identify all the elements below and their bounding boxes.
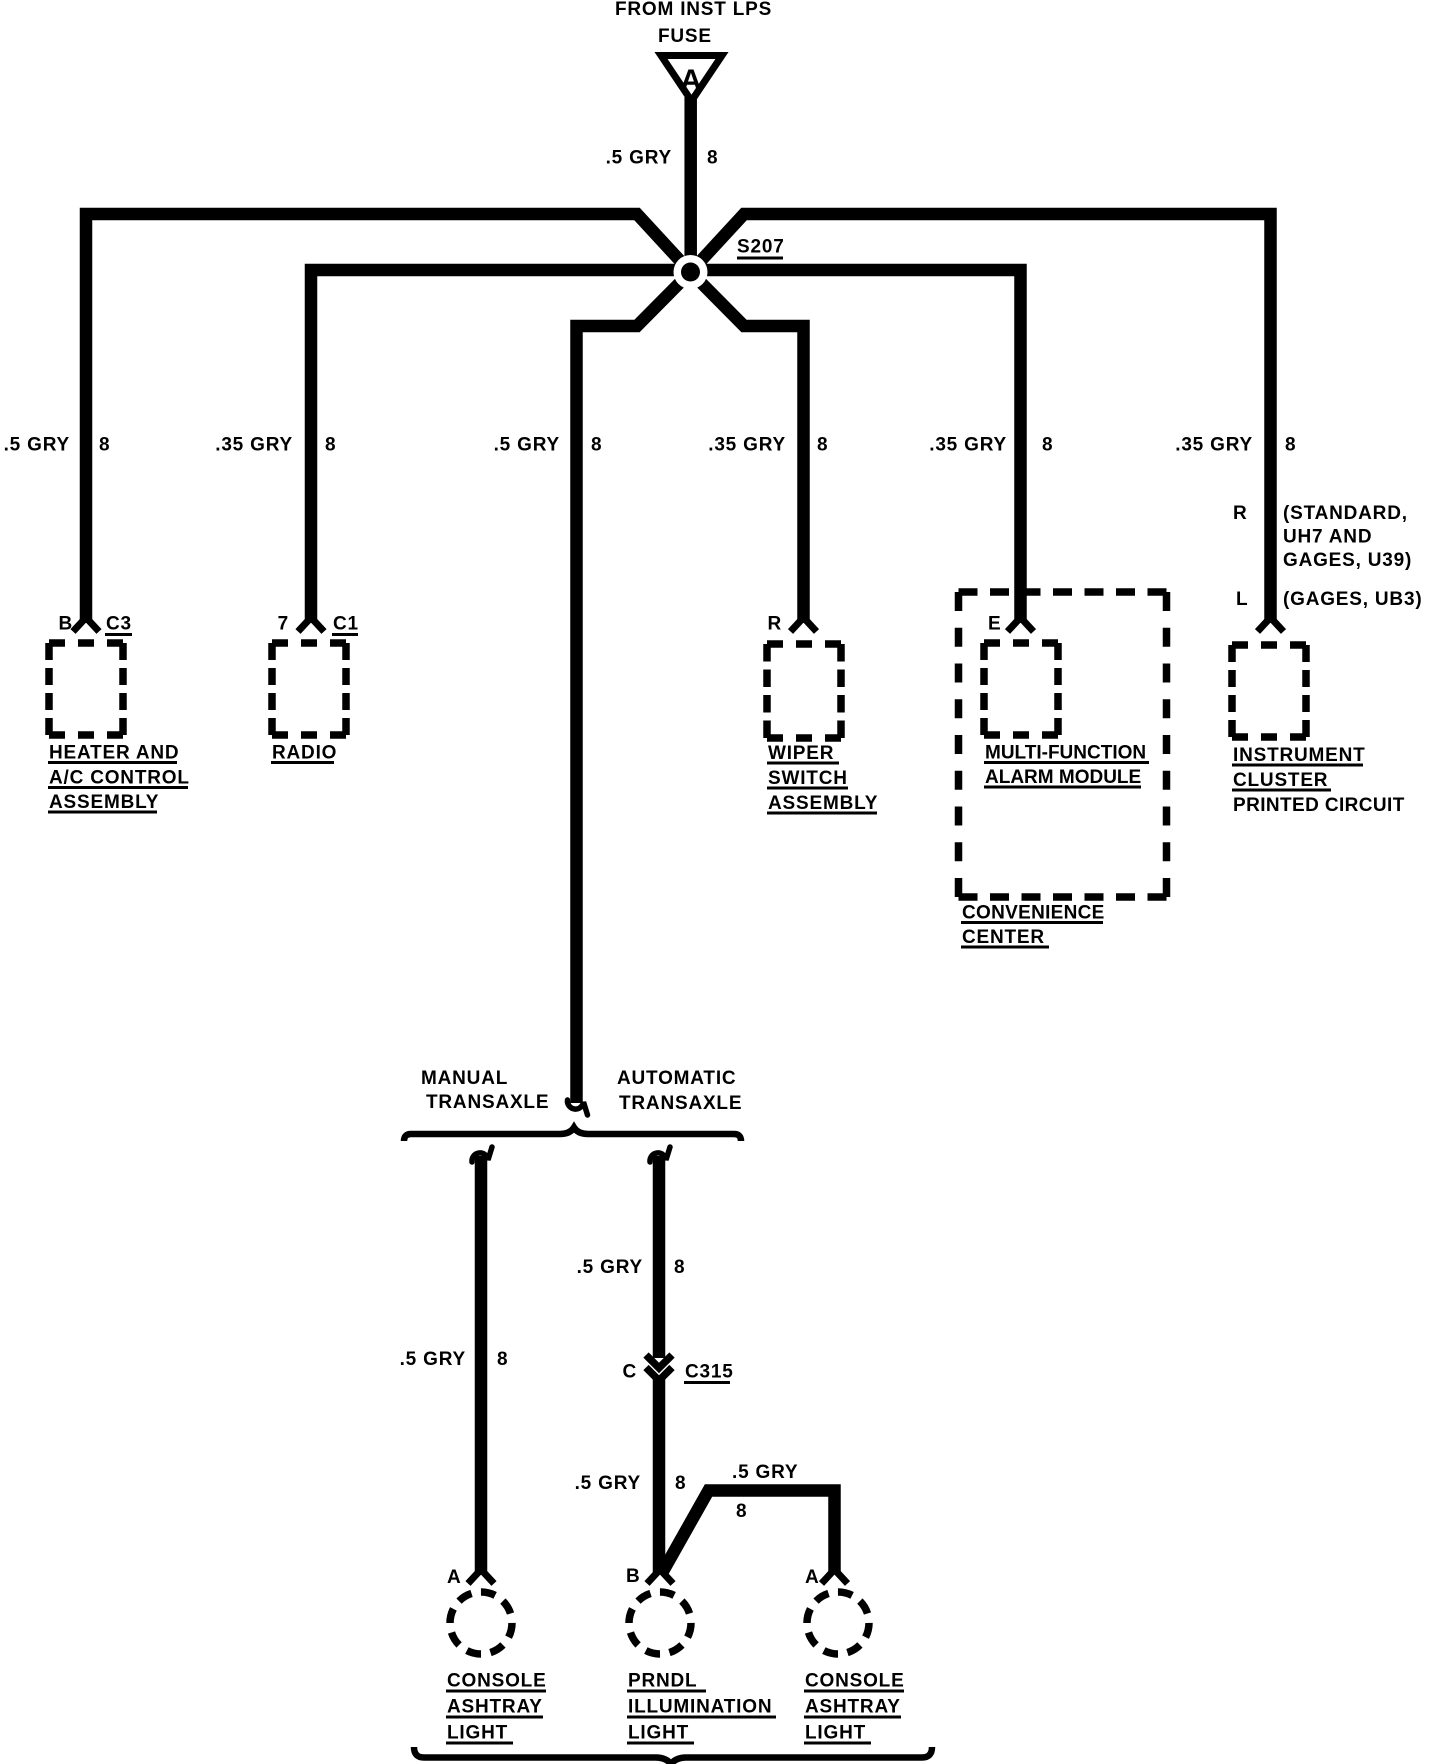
svg-text:.35 GRY: .35 GRY	[215, 435, 293, 456]
svg-text:FROM INST LPS: FROM INST LPS	[615, 0, 772, 20]
svg-text:C1: C1	[333, 614, 359, 635]
svg-text:.35 GRY: .35 GRY	[708, 435, 786, 456]
svg-text:ASHTRAY: ASHTRAY	[447, 1697, 543, 1718]
svg-text:R: R	[767, 614, 782, 635]
svg-text:A: A	[447, 1567, 462, 1588]
svg-text:8: 8	[674, 1257, 685, 1278]
svg-text:C: C	[622, 1362, 637, 1383]
svg-text:ILLUMINATION: ILLUMINATION	[628, 1697, 772, 1718]
svg-text:8: 8	[707, 148, 718, 169]
svg-text:MULTI-FUNCTION: MULTI-FUNCTION	[985, 743, 1146, 764]
svg-text:8: 8	[1042, 435, 1053, 456]
svg-text:LIGHT: LIGHT	[447, 1723, 508, 1744]
svg-text:L: L	[1236, 589, 1248, 610]
svg-text:UH7 AND: UH7 AND	[1283, 527, 1372, 548]
svg-text:CONSOLE: CONSOLE	[805, 1671, 905, 1692]
svg-text:.5 GRY: .5 GRY	[606, 148, 672, 169]
svg-text:CONSOLE: CONSOLE	[447, 1671, 547, 1692]
svg-text:CENTER: CENTER	[962, 927, 1045, 948]
svg-text:.5 GRY: .5 GRY	[732, 1462, 798, 1483]
svg-text:.35 GRY: .35 GRY	[1175, 435, 1253, 456]
svg-text:.5 GRY: .5 GRY	[4, 435, 70, 456]
svg-text:8: 8	[736, 1501, 747, 1522]
svg-text:RADIO: RADIO	[272, 743, 337, 764]
svg-text:FUSE: FUSE	[658, 26, 712, 47]
svg-text:CONVENIENCE: CONVENIENCE	[962, 903, 1105, 924]
svg-text:.35 GRY: .35 GRY	[929, 435, 1007, 456]
svg-text:A: A	[680, 64, 702, 97]
svg-text:(GAGES, UB3): (GAGES, UB3)	[1283, 589, 1422, 610]
svg-text:E: E	[988, 614, 1001, 635]
svg-text:ALARM MODULE: ALARM MODULE	[985, 767, 1141, 788]
svg-text:AUTOMATIC: AUTOMATIC	[617, 1068, 736, 1089]
svg-text:8: 8	[99, 435, 110, 456]
svg-text:LIGHT: LIGHT	[628, 1723, 689, 1744]
svg-text:C3: C3	[106, 614, 132, 635]
svg-text:ASHTRAY: ASHTRAY	[805, 1697, 901, 1718]
svg-text:GAGES, U39): GAGES, U39)	[1283, 550, 1412, 571]
svg-text:S207: S207	[737, 237, 785, 258]
svg-text:C315: C315	[685, 1362, 734, 1383]
svg-text:(STANDARD,: (STANDARD,	[1283, 503, 1408, 524]
svg-text:SWITCH: SWITCH	[768, 768, 848, 789]
svg-text:7: 7	[278, 614, 289, 635]
svg-text:CLUSTER: CLUSTER	[1233, 770, 1328, 791]
svg-text:ASSEMBLY: ASSEMBLY	[768, 793, 878, 814]
svg-text:.5 GRY: .5 GRY	[400, 1349, 466, 1370]
svg-text:TRANSAXLE: TRANSAXLE	[619, 1093, 742, 1114]
svg-text:8: 8	[1285, 435, 1296, 456]
svg-text:PRNDL: PRNDL	[628, 1671, 697, 1692]
svg-text:8: 8	[591, 435, 602, 456]
svg-text:.5 GRY: .5 GRY	[577, 1257, 643, 1278]
svg-text:8: 8	[675, 1473, 686, 1494]
svg-text:R: R	[1233, 503, 1248, 524]
svg-text:8: 8	[497, 1349, 508, 1370]
svg-text:TRANSAXLE: TRANSAXLE	[426, 1092, 549, 1113]
svg-text:PRINTED CIRCUIT: PRINTED CIRCUIT	[1233, 795, 1405, 816]
svg-text:8: 8	[817, 435, 828, 456]
svg-text:8: 8	[325, 435, 336, 456]
svg-text:.5 GRY: .5 GRY	[494, 435, 560, 456]
svg-text:MANUAL: MANUAL	[421, 1068, 508, 1089]
svg-text:B: B	[626, 1566, 641, 1587]
svg-text:A/C CONTROL: A/C CONTROL	[49, 768, 190, 789]
svg-text:ASSEMBLY: ASSEMBLY	[49, 792, 159, 813]
svg-text:.5 GRY: .5 GRY	[575, 1473, 641, 1494]
svg-text:WIPER: WIPER	[768, 743, 834, 764]
svg-text:INSTRUMENT: INSTRUMENT	[1233, 745, 1366, 766]
svg-text:HEATER AND: HEATER AND	[49, 743, 179, 764]
svg-text:A: A	[805, 1567, 820, 1588]
svg-text:B: B	[58, 614, 73, 635]
svg-text:LIGHT: LIGHT	[805, 1723, 866, 1744]
